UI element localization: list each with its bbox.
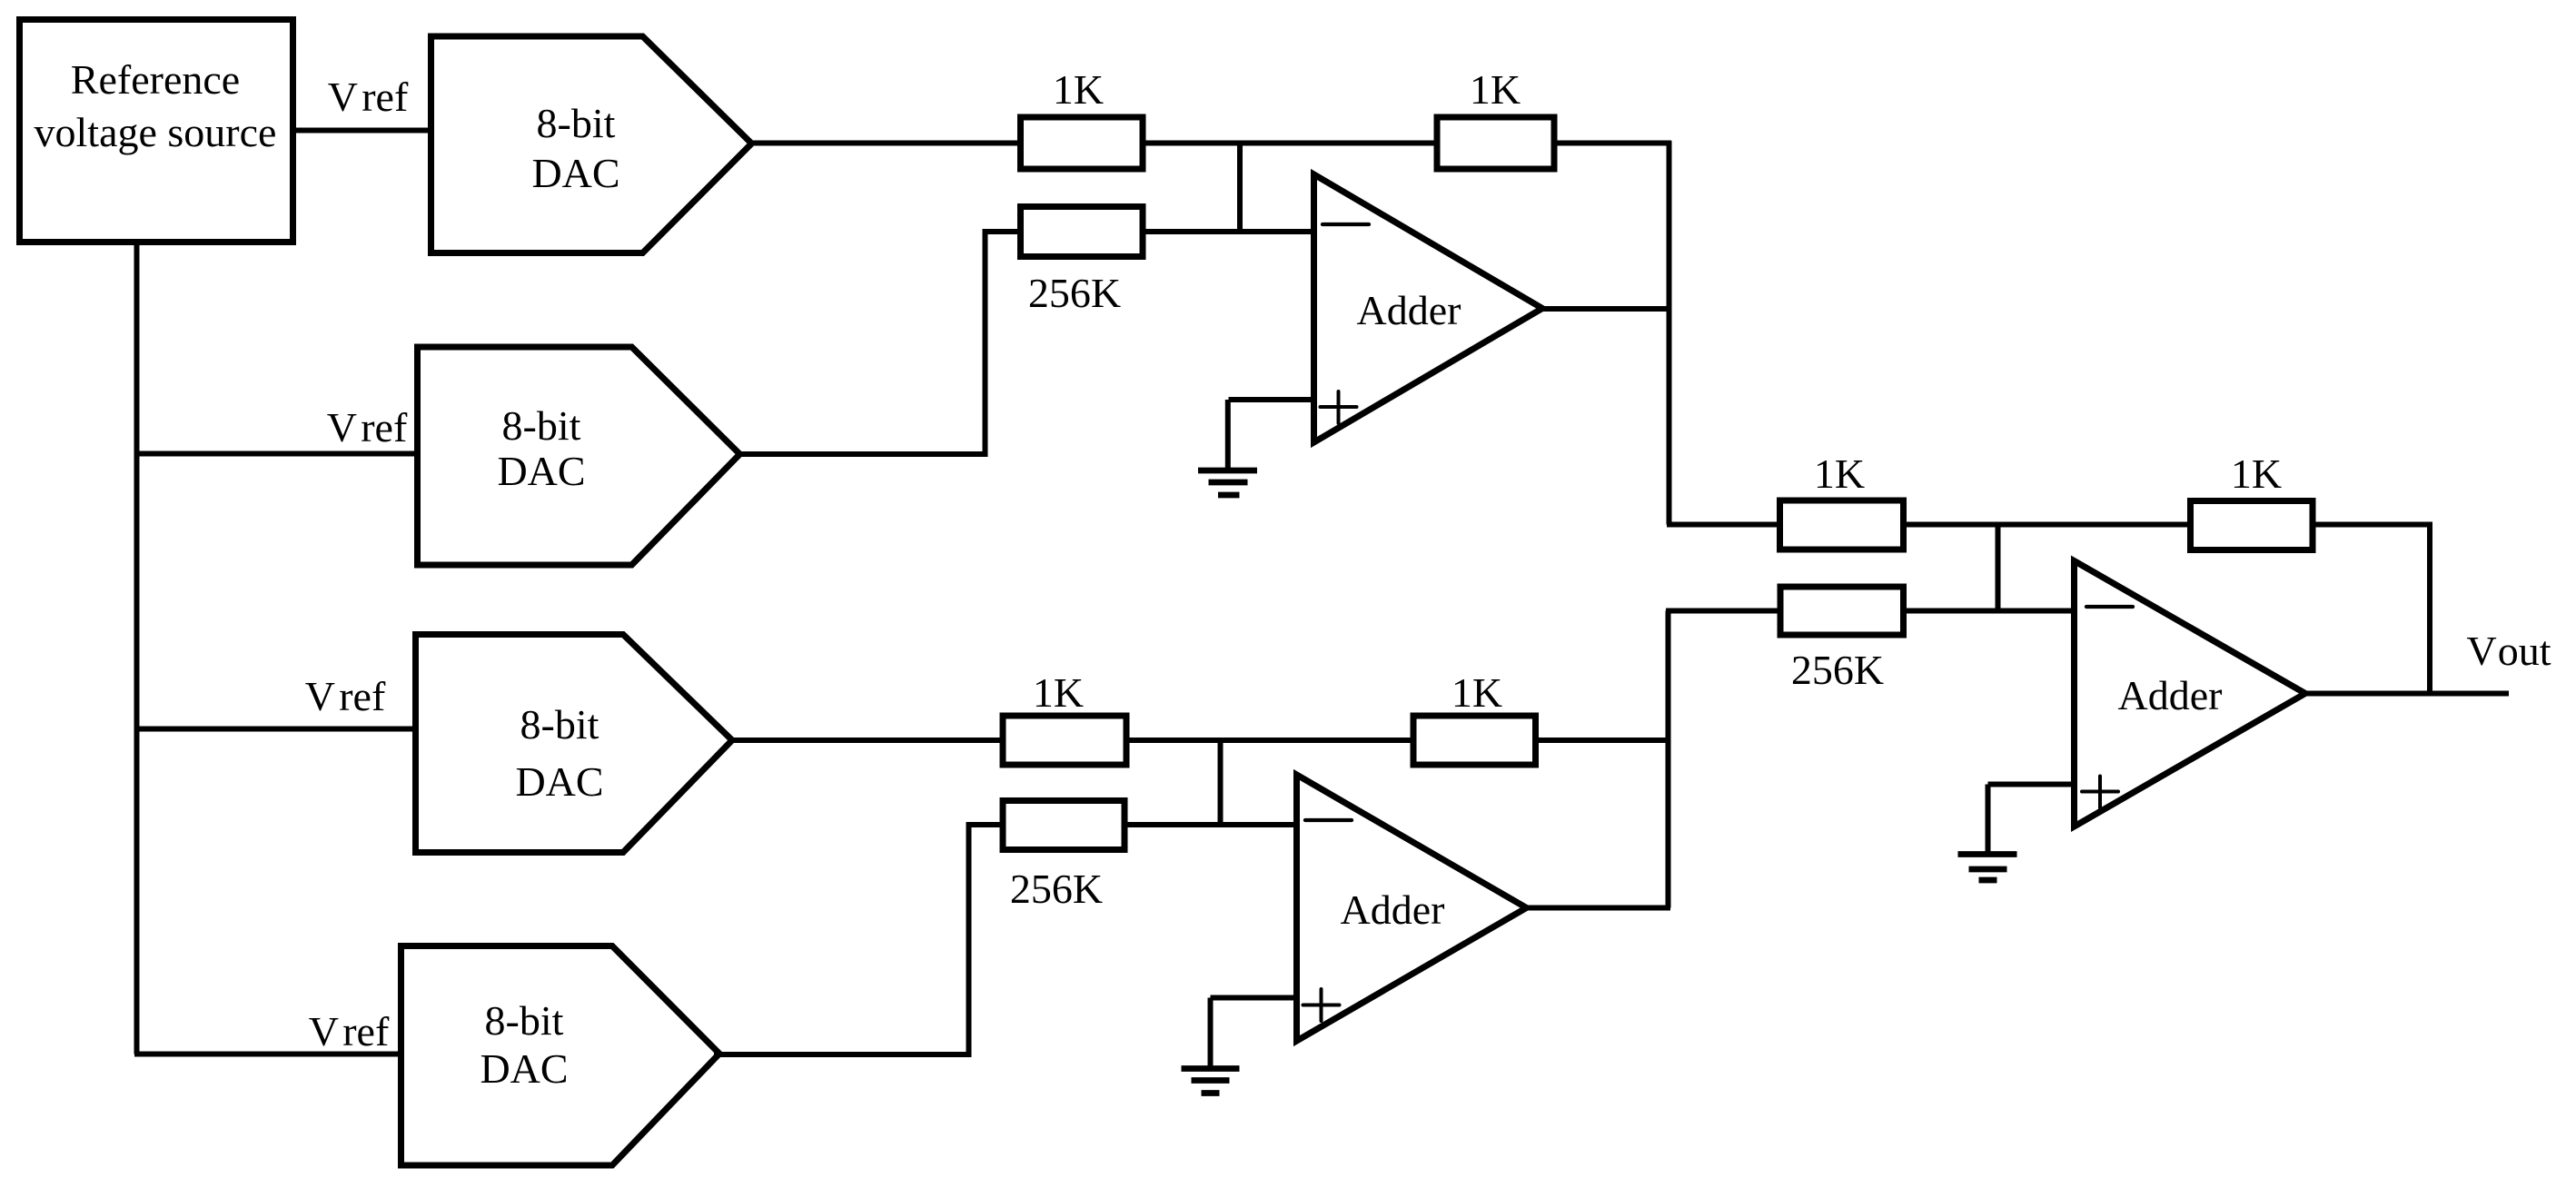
wire U3 output to R4 <box>729 738 1003 743</box>
svg-text:1K: 1K <box>1033 669 1084 716</box>
svg-text:1K: 1K <box>2231 450 2282 497</box>
svg-text:Adder: Adder <box>1341 886 1445 933</box>
wire U1 output to R1 <box>748 141 1020 146</box>
resistor Rfb3 (1K feedback) <box>2191 501 2313 550</box>
svg-text:DAC: DAC <box>531 150 619 196</box>
resistor Rfb1 (1K feedback) <box>1437 117 1554 169</box>
svg-text:256K: 256K <box>1791 647 1884 693</box>
wire U6 output to stage B vertical bus <box>1523 906 1670 911</box>
svg-text:8-bit: 8-bit <box>485 997 564 1044</box>
wire U2 output to R2 <box>736 232 1021 454</box>
node C junction vertical (summing node of U7) <box>1996 525 2001 611</box>
svg-text:Vref: Vref <box>327 404 408 450</box>
wire U5 output to vertical bus <box>1540 306 1671 312</box>
svg-text:Vref: Vref <box>305 673 386 719</box>
svg-text:8-bit: 8-bit <box>520 701 599 747</box>
resistor R8 (256K) <box>1780 587 1904 635</box>
resistor R5 (256K) <box>1003 801 1125 850</box>
svg-text:1K: 1K <box>1814 450 1865 497</box>
wire R8 to op-amp U7 minus input <box>1904 609 2075 614</box>
svg-text:256K: 256K <box>1028 270 1121 316</box>
wire Vref to DAC U4 <box>134 1052 401 1057</box>
svg-text:Vout: Vout <box>2466 628 2551 674</box>
DAC U2 (8-bit DAC) <box>418 347 740 565</box>
svg-text:DAC: DAC <box>515 758 603 805</box>
DAC U4 (8-bit DAC) <box>401 946 720 1166</box>
wire R5 to op-amp U6 minus input <box>1125 822 1297 827</box>
resistor R7 (1K) <box>1780 500 1904 549</box>
op-amp U7 (Adder 3) <box>2075 561 2306 827</box>
wire bus to R7 <box>1667 522 1780 528</box>
wire ground to U7 plus input <box>1988 782 2075 787</box>
reference voltage source box <box>20 20 293 243</box>
wire vertical bus (stage A output) <box>1667 141 1672 525</box>
resistor R1 (1K) <box>1021 117 1144 169</box>
wire R2 to op-amp U5 minus input <box>1143 229 1314 234</box>
wire stage B vertical bus <box>1666 611 1671 908</box>
svg-text:Adder: Adder <box>1357 287 1461 333</box>
wire Rfb1 to vertical bus <box>1554 141 1671 146</box>
resistor R4 (1K) <box>1003 716 1126 765</box>
wire U7 output (Vout) <box>2303 691 2509 697</box>
svg-text:8-bit: 8-bit <box>502 402 581 449</box>
wire Vref to DAC U1 <box>292 128 431 134</box>
node A junction vertical (summing node) <box>1237 144 1243 233</box>
op-amp U6 (Adder 2) <box>1297 775 1527 1041</box>
DAC U1 (8-bit DAC) <box>431 36 752 253</box>
svg-text:1K: 1K <box>1451 669 1502 716</box>
wire ground to U6 plus input <box>1211 995 1297 1001</box>
wire Rfb3 feedback to output <box>2313 525 2430 694</box>
node B junction vertical (summing node of U6) <box>1218 740 1224 825</box>
wire Rfb2 to stage B vertical bus <box>1536 738 1671 743</box>
DAC U3 (8-bit DAC) <box>416 635 733 853</box>
svg-text:Reference: Reference <box>71 56 240 103</box>
wire stage B bus to R8 <box>1666 609 1780 614</box>
ground (U6 plus input) <box>1182 998 1240 1094</box>
ground (U5 plus input) <box>1198 400 1257 495</box>
op-amp U5 (Adder 1) <box>1314 174 1543 442</box>
resistor Rfb2 (1K feedback) <box>1413 716 1536 765</box>
wire R7 to Rfb3 (passes node C) <box>1904 522 2191 528</box>
wire U4 output to R5 <box>714 825 1003 1054</box>
wire Vref trunk vertical from box bottom <box>134 240 140 1054</box>
ground (U7 plus input) <box>1958 785 2017 881</box>
wire R1 to Rfb1 (top rail, passes node A) <box>1143 141 1437 146</box>
wire R4 to Rfb2 (passes node B) <box>1126 738 1413 743</box>
svg-text:1K: 1K <box>1053 66 1104 113</box>
wire Vref to DAC U2 <box>134 451 418 457</box>
wire Vref to DAC U3 <box>134 727 416 732</box>
svg-text:256K: 256K <box>1010 866 1103 912</box>
resistor R2 (256K) <box>1021 207 1144 257</box>
svg-text:DAC: DAC <box>480 1045 568 1092</box>
svg-text:1K: 1K <box>1470 66 1521 113</box>
svg-text:DAC: DAC <box>497 448 585 494</box>
svg-text:Adder: Adder <box>2118 672 2223 718</box>
svg-text:8-bit: 8-bit <box>537 100 616 146</box>
svg-text:voltage source: voltage source <box>35 109 277 155</box>
svg-text:Vref: Vref <box>309 1008 390 1054</box>
svg-text:Vref: Vref <box>328 74 409 120</box>
wire ground to U5 plus input <box>1229 397 1314 402</box>
